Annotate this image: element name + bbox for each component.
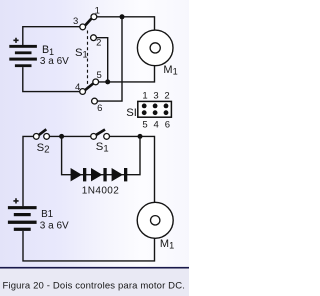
svg-text:1N4002: 1N4002 [82, 186, 119, 197]
diode D3 1N4002 [112, 168, 128, 181]
S2 contact left [33, 134, 39, 140]
wire: battery B1 (top) positive to S1 contact 3 [23, 27, 80, 46]
svg-text:3 a 6V: 3 a 6V [40, 56, 69, 67]
svg-text:5: 5 [97, 70, 102, 81]
plus sign of battery B1 (bottom) [13, 198, 18, 203]
junction node left of diode branch [59, 134, 64, 139]
switch S2 lever [39, 129, 46, 135]
S1 bottom contact right [104, 134, 110, 140]
switch S1 (bottom) lever [96, 130, 105, 135]
switch S1 (DPDT, top) lever pole B [85, 84, 93, 91]
svg-text:3: 3 [73, 16, 78, 27]
wire: diode bypass branch [62, 136, 140, 174]
svg-text:1: 1 [95, 6, 100, 17]
S1 contact 1 [91, 14, 97, 20]
wire: left rail bottom circuit (S2 to battery +) [23, 136, 33, 206]
caption strip [0, 269, 189, 296]
battery B1 (top) [9, 45, 37, 67]
SI pins (6 dots) [142, 104, 169, 116]
svg-text:6: 6 [165, 119, 170, 130]
S1 contact 4 [80, 89, 86, 95]
svg-text:6: 6 [97, 103, 102, 114]
wire: S2 to S1 (bottom) [50, 135, 91, 137]
svg-text:S2: S2 [37, 142, 50, 156]
S2 contact right [44, 134, 50, 140]
svg-text:B1: B1 [42, 44, 54, 57]
junction node (2-5) [105, 79, 110, 84]
S1 bottom contact left [91, 134, 97, 140]
diode D1 1N4002 [71, 168, 87, 181]
switch S1 (DPDT, top) lever pole A [85, 18, 91, 25]
S1 contact 2 [91, 35, 97, 41]
wire: battery B1 (bottom) negative to motor M1 (bottom) [23, 231, 155, 261]
plus sign of battery B1 (top) [13, 38, 18, 43]
caption divider line [0, 267, 189, 269]
wire: S1 contact 1 to motor M1 top [97, 17, 155, 31]
svg-text:B1: B1 [41, 209, 54, 220]
svg-text:2: 2 [164, 90, 169, 101]
junction node (1-6) [120, 14, 125, 19]
svg-text:5: 5 [142, 119, 147, 130]
svg-text:2: 2 [96, 38, 101, 49]
svg-text:M1: M1 [160, 238, 174, 250]
S1 contact 5 [93, 79, 99, 85]
wire: S1 contact 2 down to node on contact 5 line [96, 38, 107, 82]
svg-text:4: 4 [154, 119, 159, 130]
svg-text:4: 4 [75, 82, 80, 93]
svg-text:SI: SI [126, 107, 137, 119]
junction node right of diode branch [138, 134, 143, 139]
svg-text:S1: S1 [96, 141, 109, 155]
battery B1 (bottom) [8, 206, 37, 231]
svg-text:1: 1 [142, 90, 147, 101]
wire: S1 (bottom) to motor M1 (bottom) top [110, 136, 155, 202]
wire: battery B1 (top) negative to S1 contact 4 [23, 67, 80, 92]
svg-text:3: 3 [153, 90, 158, 101]
S1 contact 6 [92, 98, 98, 104]
motor M1 (bottom) [137, 202, 173, 238]
diode D2 1N4002 [91, 168, 107, 181]
svg-text:3 a 6V: 3 a 6V [40, 220, 69, 231]
switch S1 (DPDT) coupling dashed line [87, 31, 89, 88]
svg-text:S1: S1 [75, 47, 88, 60]
motor M1 (top) [137, 30, 173, 66]
svg-text:M1: M1 [163, 64, 177, 76]
wire: S1 contact 5 to motor M1 bottom [99, 66, 155, 82]
connector SI pinout box [138, 101, 172, 117]
svg-text:Figura 20 - Dois controles par: Figura 20 - Dois controles para motor DC… [3, 280, 186, 291]
wire: vertical from node to contact 6 [97, 17, 122, 101]
S1 contact 3 [80, 24, 86, 30]
